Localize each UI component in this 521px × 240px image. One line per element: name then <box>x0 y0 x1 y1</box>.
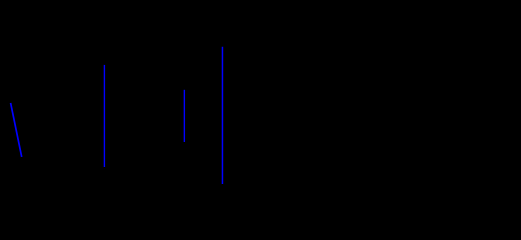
wire: right branch (node C) <box>221 47 223 184</box>
switch SW1 lever <box>11 103 22 157</box>
wire: left branch (node A) <box>103 65 105 167</box>
wire: middle branch (node B) <box>183 90 185 142</box>
